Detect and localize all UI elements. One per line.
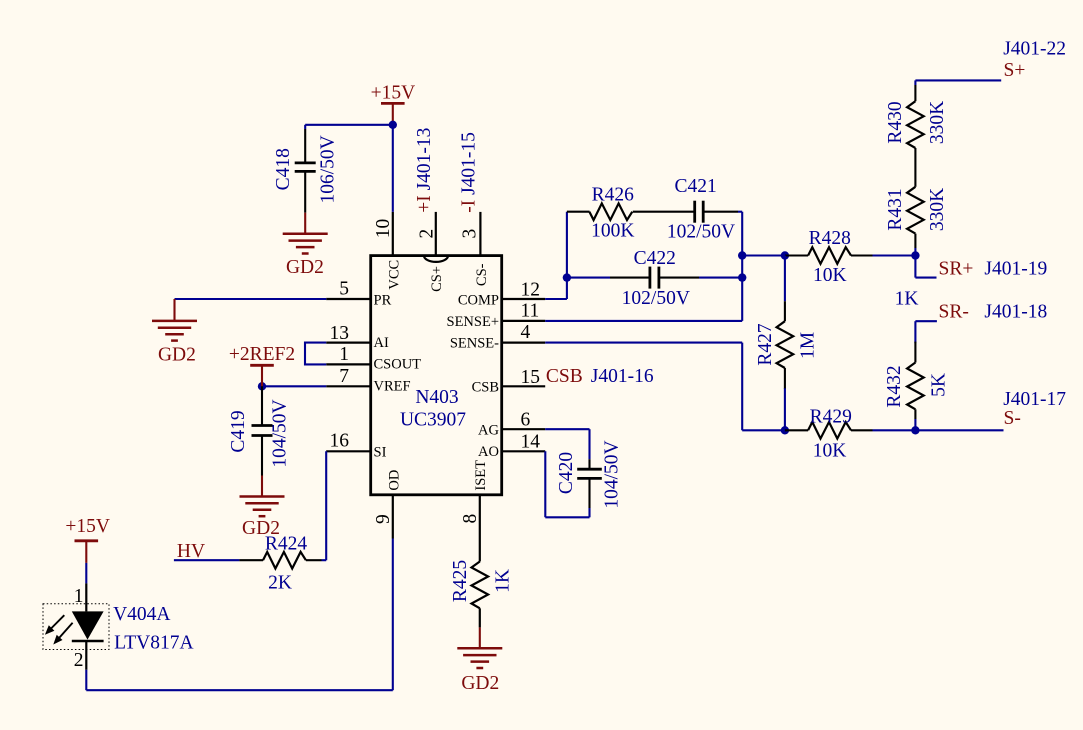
svg-text:J401-18: J401-18 [984, 301, 1047, 322]
svg-text:R432: R432 [884, 365, 905, 407]
svg-text:+15V: +15V [65, 516, 110, 537]
svg-text:9: 9 [373, 514, 394, 524]
svg-text:J401-16: J401-16 [591, 366, 654, 387]
svg-text:AO: AO [478, 444, 499, 460]
svg-text:CSB: CSB [546, 366, 583, 387]
svg-text:R424: R424 [265, 534, 308, 555]
svg-text:N403: N403 [415, 387, 458, 408]
svg-text:10K: 10K [813, 265, 847, 286]
svg-text:SI: SI [374, 444, 387, 460]
svg-text:CSB: CSB [472, 379, 499, 395]
svg-text:SENSE-: SENSE- [450, 336, 499, 352]
svg-text:J401-19: J401-19 [984, 258, 1047, 279]
svg-text:+2REF2: +2REF2 [229, 344, 295, 365]
svg-text:102/50V: 102/50V [667, 221, 735, 242]
svg-text:R425: R425 [450, 560, 471, 602]
svg-text:16: 16 [330, 430, 350, 451]
svg-text:V404A: V404A [113, 604, 170, 625]
svg-text:6: 6 [521, 410, 531, 431]
svg-text:2: 2 [417, 229, 438, 239]
svg-text:13: 13 [330, 323, 350, 344]
svg-text:S-: S- [1004, 408, 1021, 429]
svg-text:3: 3 [460, 229, 481, 239]
svg-text:VCC: VCC [386, 260, 402, 290]
svg-text:OD: OD [386, 470, 402, 491]
svg-text:1K: 1K [895, 288, 919, 309]
svg-text:COMP: COMP [458, 292, 499, 308]
svg-text:AG: AG [478, 422, 499, 438]
svg-text:J401-22: J401-22 [1003, 39, 1066, 60]
svg-text:15: 15 [521, 367, 541, 388]
svg-text:R426: R426 [592, 185, 635, 206]
svg-text:104/50V: 104/50V [602, 440, 623, 508]
svg-text:1M: 1M [798, 332, 819, 359]
svg-text:106/50V: 106/50V [318, 135, 339, 203]
svg-text:11: 11 [521, 301, 540, 322]
svg-text:5K: 5K [929, 373, 950, 397]
svg-text:C419: C419 [228, 410, 249, 452]
svg-text:C422: C422 [634, 248, 676, 269]
svg-text:10K: 10K [813, 441, 847, 462]
svg-text:C420: C420 [556, 452, 577, 494]
svg-text:CS+: CS+ [429, 266, 445, 292]
svg-text:R431: R431 [885, 188, 906, 230]
svg-text:4: 4 [521, 322, 531, 343]
svg-text:SR-: SR- [939, 301, 969, 322]
svg-text:S+: S+ [1004, 60, 1026, 81]
svg-text:C421: C421 [674, 176, 716, 197]
svg-text:PR: PR [374, 292, 392, 308]
svg-text:330K: 330K [927, 188, 948, 231]
svg-text:12: 12 [521, 280, 541, 301]
svg-text:J401-17: J401-17 [1003, 389, 1066, 410]
svg-text:1: 1 [339, 344, 349, 365]
svg-text:LTV817A: LTV817A [114, 633, 193, 654]
svg-text:SENSE+: SENSE+ [447, 314, 500, 330]
svg-text:CSOUT: CSOUT [374, 356, 422, 372]
svg-text:GD2: GD2 [461, 673, 499, 694]
svg-text:SR+: SR+ [939, 258, 974, 279]
svg-text:ISET: ISET [473, 460, 489, 491]
svg-text:104/50V: 104/50V [270, 399, 291, 467]
svg-text:GD2: GD2 [158, 344, 196, 365]
svg-text:100K: 100K [591, 220, 634, 241]
svg-text:VREF: VREF [374, 379, 411, 395]
svg-text:CS-: CS- [474, 263, 490, 286]
svg-text:+15V: +15V [371, 82, 416, 103]
svg-text:-I J401-15: -I J401-15 [458, 132, 479, 213]
svg-text:2: 2 [74, 650, 84, 671]
svg-text:R427: R427 [755, 323, 776, 366]
svg-text:5: 5 [339, 279, 349, 300]
svg-text:AI: AI [374, 335, 389, 351]
svg-text:GD2: GD2 [286, 257, 324, 278]
svg-text:1: 1 [74, 586, 84, 607]
svg-text:7: 7 [339, 366, 349, 387]
svg-text:330K: 330K [927, 101, 948, 144]
svg-text:R430: R430 [885, 101, 906, 143]
svg-text:10: 10 [373, 219, 394, 239]
svg-text:C418: C418 [273, 148, 294, 190]
svg-text:R429: R429 [810, 407, 852, 428]
svg-text:UC3907: UC3907 [400, 410, 466, 431]
svg-text:8: 8 [460, 514, 481, 524]
svg-text:2K: 2K [268, 572, 292, 593]
svg-text:HV: HV [177, 541, 205, 562]
svg-text:102/50V: 102/50V [622, 288, 690, 309]
svg-text:+I J401-13: +I J401-13 [414, 128, 435, 213]
svg-text:14: 14 [521, 431, 541, 452]
svg-text:1K: 1K [493, 569, 514, 593]
svg-text:R428: R428 [809, 228, 851, 249]
